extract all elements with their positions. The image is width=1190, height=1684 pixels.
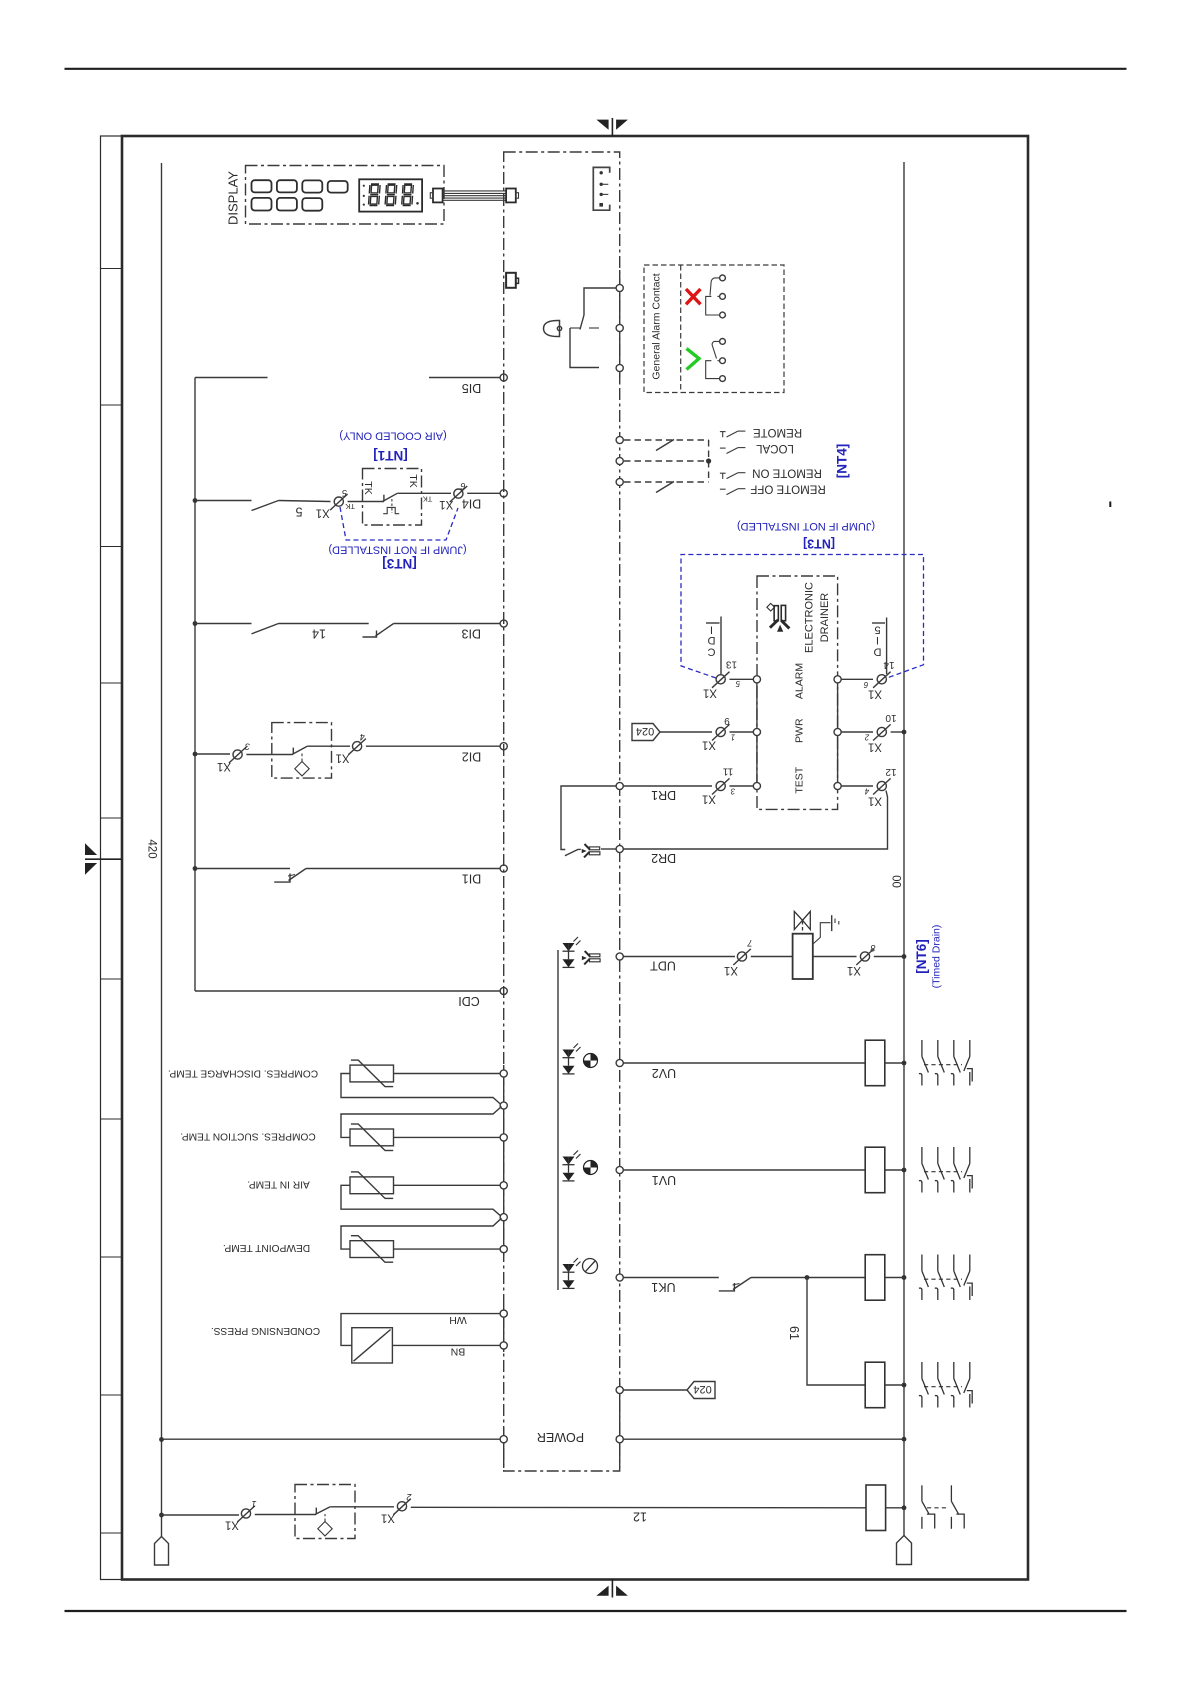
svg-text:AIR IN TEMP.: AIR IN TEMP.: [247, 1179, 309, 1190]
box TK thermal switch [NT1]: [363, 469, 422, 526]
net tag 024 bottom: [687, 1382, 715, 1399]
door contact: [315, 1508, 317, 1515]
node sensor4: [500, 1246, 507, 1253]
page header rule: [65, 68, 1127, 70]
coil UV1: [865, 1147, 885, 1193]
svg-text:1: 1: [731, 732, 735, 741]
svg-text:024: 024: [693, 1383, 711, 1395]
drain icon UDT: [582, 951, 600, 964]
svg-text:WH: WH: [449, 1314, 467, 1326]
svg-text:12: 12: [633, 1509, 647, 1523]
svg-text:3: 3: [730, 786, 735, 795]
svg-text:(JUMP IF NOT INSTALLED): (JUMP IF NOT INSTALLED): [328, 544, 466, 556]
svg-text:ALARM: ALARM: [793, 663, 805, 699]
wire DI1 to node: [306, 868, 500, 870]
wire DI4 left stub: [195, 500, 252, 502]
manual override linkage: [814, 923, 831, 944]
wire DI common rail: [194, 378, 196, 992]
node DR2: [616, 845, 623, 852]
svg-text:I: I: [876, 634, 879, 646]
connector X1 pin 9: [712, 724, 730, 740]
node POWER right: [616, 1436, 623, 1443]
wire coil UV2 to bus: [885, 1062, 904, 1064]
wire sensor2 wrap: [341, 1107, 502, 1138]
svg-text:13: 13: [726, 659, 738, 670]
node drainer pwr left: [753, 728, 760, 735]
connector X1 pin 11: [712, 778, 730, 794]
TK thermal element: [383, 507, 399, 513]
wire DI2 to X1-4: [307, 745, 350, 747]
wire drainer pwr right: [841, 731, 873, 733]
coil UV2: [865, 1040, 885, 1086]
icon green check: [687, 349, 700, 370]
svg-text:X1: X1: [868, 687, 882, 699]
wire drainer alarm right: [841, 678, 873, 680]
svg-text:DI3: DI3: [462, 626, 482, 640]
jumper NT3 dashed blue at DI4: [340, 507, 458, 540]
buzzer bell: [544, 320, 560, 336]
wire trident to DR2 node: [601, 848, 616, 850]
wire into box: [255, 1514, 316, 1516]
box door switch: [295, 1485, 355, 1539]
coil UK1: [865, 1255, 885, 1301]
relay changeover contact (ok): [706, 339, 726, 382]
drain assembly DR1-DR2: [561, 786, 616, 850]
svg-text:C: C: [707, 646, 715, 658]
svg-text:DR1: DR1: [651, 788, 676, 802]
solid overlay right edge buzzer section: [619, 270, 621, 382]
svg-text:4: 4: [360, 732, 365, 742]
svg-text:LOCAL: LOCAL: [756, 442, 794, 454]
box DISPLAY (dash-dot): [246, 166, 445, 225]
latching contact DI1: [274, 874, 290, 883]
wire DI2 to node: [366, 745, 500, 747]
solenoid valve coil: [793, 934, 813, 979]
wire sensor4 right: [394, 1248, 501, 1250]
svg-text:X1: X1: [217, 760, 231, 772]
box General Alarm Contact: [644, 265, 784, 393]
wire X1-9 to drainer: [730, 731, 754, 733]
float diamond bottom: [318, 1521, 332, 1535]
node UK1: [616, 1274, 623, 1281]
wire X1-12 to DR2: [623, 791, 887, 850]
pressure contact on DI3 row: [363, 631, 377, 638]
junction POWER bus: [902, 1437, 907, 1442]
float diamond DI2: [295, 761, 309, 775]
svg-text:UV2: UV2: [652, 1066, 676, 1080]
selector arm 1: [656, 440, 674, 451]
svg-text:00: 00: [890, 875, 902, 888]
fold mark left edge: [85, 843, 122, 875]
svg-text:[NT4]: [NT4]: [835, 444, 850, 479]
svg-text:420: 420: [146, 839, 158, 858]
connector 4pin top right: [593, 167, 609, 210]
node sel1: [616, 436, 623, 443]
contact group main 2 pole: [922, 1485, 964, 1529]
svg-text:3: 3: [245, 742, 250, 752]
svg-text:UDT: UDT: [650, 959, 676, 973]
drawing frame: [122, 136, 1028, 1580]
wire sensor1 wrap: [341, 1074, 502, 1106]
svg-text:5: 5: [295, 505, 302, 519]
node drainer test right: [834, 782, 841, 789]
wire DI3 middle: [279, 623, 369, 625]
node buzzer mid: [616, 324, 623, 331]
contact group UV2: [919, 1040, 972, 1086]
svg-text:[NT1]: [NT1]: [373, 448, 408, 463]
junction UK1 bus: [902, 1275, 907, 1280]
junction UK1 branch: [805, 1275, 810, 1280]
wire coil aux to bus: [885, 1384, 904, 1386]
fold mark top center: [596, 118, 628, 136]
switch contact on DI4 row: [252, 501, 279, 511]
svg-text:5: 5: [874, 624, 880, 636]
svg-text:COMPRES. DISCHARGE TEMP.: COMPRES. DISCHARGE TEMP.: [168, 1068, 318, 1079]
node POWER left: [500, 1436, 507, 1443]
svg-text:D: D: [873, 646, 881, 658]
wire UV2 row: [623, 1062, 865, 1064]
wire sensor3 right: [394, 1184, 501, 1186]
buzzer switch arm: [580, 315, 584, 330]
svg-text:DR2: DR2: [651, 851, 676, 865]
wire X1-13 to drainer: [730, 678, 754, 680]
seven-segment display module: [359, 179, 422, 211]
junction 024 rail bottom: [159, 1437, 164, 1442]
LED indicator rail: [557, 950, 559, 1290]
wire X1-10 to bus: [891, 731, 904, 733]
connector X1 pin 13: [712, 672, 730, 688]
svg-text:[NT3]: [NT3]: [382, 556, 417, 571]
wire buzzer top: [584, 288, 616, 315]
net tag 024 PWR: [632, 724, 660, 741]
svg-text:DRAINER: DRAINER: [819, 593, 831, 643]
svg-text:(JUMP IF NOT INSTALLED): (JUMP IF NOT INSTALLED): [737, 520, 875, 532]
wire to X1-2: [330, 1506, 394, 1508]
node drainer pwr right: [834, 728, 841, 735]
svg-text:X1: X1: [847, 964, 861, 976]
ribbon cable connector left: [433, 189, 443, 203]
svg-text:UV1: UV1: [652, 1173, 676, 1187]
wire DI3 left stub: [195, 623, 252, 625]
svg-text:TK: TK: [345, 502, 355, 511]
node sensor pair 2: [500, 1214, 507, 1221]
contact group UV1: [919, 1147, 972, 1193]
wire DI2 left stub: [195, 753, 230, 755]
svg-text:X1: X1: [439, 498, 453, 510]
wire X1-11 to drainer: [730, 785, 754, 787]
position symbol REMOTE: [720, 431, 746, 437]
svg-text:2: 2: [406, 1492, 412, 1502]
terminal left: [161, 1515, 163, 1537]
node UV1: [616, 1166, 623, 1173]
svg-text:14: 14: [883, 659, 895, 670]
wire UV1 row: [623, 1169, 865, 1171]
svg-text:CONDENSING PRESS.: CONDENSING PRESS.: [211, 1325, 320, 1336]
ribbon cable connector right: [506, 189, 516, 203]
svg-text:DISPLAY: DISPLAY: [226, 171, 241, 225]
connector X1 pin 5: [330, 494, 348, 510]
svg-text:REMOTE ON: REMOTE ON: [752, 467, 822, 479]
solid overlay drainer edges: [756, 679, 758, 786]
svg-text:(Timed Drain): (Timed Drain): [931, 925, 943, 989]
wire sensor2 right: [394, 1136, 501, 1138]
signal CDI stub: [720, 617, 722, 675]
node DR1: [616, 782, 623, 789]
wire DR1: [623, 785, 712, 787]
svg-text:12: 12: [885, 766, 897, 777]
relay changeover contact (alarm): [706, 275, 726, 318]
svg-text:DEWPOINT TEMP.: DEWPOINT TEMP.: [223, 1242, 310, 1253]
svg-text:X1: X1: [225, 1519, 239, 1531]
svg-text:61: 61: [787, 1326, 801, 1340]
svg-text:10: 10: [885, 712, 897, 723]
connector X1 pin 3: [229, 747, 247, 763]
terminal right: [897, 1536, 912, 1565]
node WH: [500, 1310, 507, 1317]
node DI1: [500, 865, 507, 872]
connector X1 pin 6: [450, 486, 468, 502]
button 6: [277, 198, 297, 211]
connector X1 pin 12: [873, 778, 891, 794]
wire 12 row: [411, 1506, 866, 1509]
wire DI4 to X1-5: [279, 501, 331, 502]
svg-text:024: 024: [636, 725, 654, 737]
fold mark bottom center: [596, 1579, 628, 1598]
wire X1-6 to DI4 node: [467, 492, 500, 494]
contact group UK1: [919, 1255, 972, 1301]
lamp circle UK1: [583, 1259, 598, 1274]
wire coil UK1 to bus: [885, 1277, 904, 1279]
svg-text:2: 2: [864, 732, 870, 741]
svg-text:I: I: [710, 624, 713, 636]
svg-text:(AIR COOLED ONLY): (AIR COOLED ONLY): [339, 430, 446, 442]
button 2: [277, 180, 297, 192]
button 3: [302, 180, 322, 192]
level switch contact DI2: [292, 748, 294, 755]
svg-text:X1: X1: [381, 1512, 395, 1524]
junction aux bus: [902, 1383, 907, 1388]
svg-text:6: 6: [460, 481, 465, 491]
svg-text:COMPRES. SUCTION TEMP.: COMPRES. SUCTION TEMP.: [180, 1131, 315, 1142]
svg-text:[NT6]: [NT6]: [914, 939, 929, 974]
connector X1 pin 8: [856, 949, 874, 965]
node drainer alarm right: [834, 676, 841, 683]
svg-text:DI5: DI5: [462, 381, 482, 395]
svg-text:POWER: POWER: [537, 1430, 584, 1444]
node drainer test left: [753, 782, 760, 789]
contact group aux: [919, 1362, 972, 1408]
svg-text:X1: X1: [703, 686, 717, 698]
wire buzzer bracket: [570, 328, 599, 368]
svg-text:DI1: DI1: [462, 872, 482, 886]
svg-text:General Alarm Contact: General Alarm Contact: [651, 273, 663, 379]
button 4: [328, 181, 348, 193]
junction main bus: [902, 1505, 907, 1510]
svg-text:8: 8: [870, 943, 875, 953]
node buzzer top: [616, 284, 623, 291]
svg-text:ELECTRONIC: ELECTRONIC: [804, 582, 816, 653]
node DI4: [500, 490, 507, 497]
svg-text:TK: TK: [423, 495, 433, 504]
wire TK to X1-6: [397, 492, 451, 494]
svg-text:DI4: DI4: [462, 496, 482, 510]
junction pwr bus: [902, 730, 907, 735]
solid overlay right edge bottom section: [619, 1383, 621, 1468]
connector small on controller edge: [506, 273, 516, 288]
wire POWER row right: [623, 1438, 904, 1440]
junction DI1 on rail: [193, 866, 198, 871]
node UV2: [616, 1059, 623, 1066]
position symbol LOCAL: [720, 448, 746, 454]
wire into DI2 box: [246, 754, 292, 756]
wire BN: [392, 1344, 500, 1346]
wire drainer test right: [841, 785, 873, 787]
LED UDT: [563, 937, 581, 967]
coil aux K: [865, 1362, 885, 1408]
node CDI: [500, 987, 507, 994]
switch contact on DI3 row: [252, 624, 279, 634]
wire solenoid to X1-8: [813, 956, 857, 958]
svg-text:5: 5: [735, 679, 740, 688]
wire right bus 00: [903, 162, 905, 1536]
node sel3: [616, 478, 623, 485]
connector X1 pin 1: [237, 1506, 255, 1522]
wire coil UV1 to bus: [885, 1169, 904, 1171]
latching contact UK1: [719, 1283, 735, 1291]
position symbol REMOTE ON: [720, 473, 746, 479]
junction UV2 bus: [902, 1061, 907, 1066]
svg-text:1: 1: [251, 1499, 256, 1509]
node DI2: [500, 743, 507, 750]
wire WH: [341, 1314, 500, 1346]
wire sensor4 wrap: [341, 1218, 502, 1249]
node DI5: [500, 374, 507, 381]
svg-text:11: 11: [722, 766, 733, 777]
svg-text:DI2: DI2: [462, 749, 482, 763]
frame title strip: [101, 136, 123, 1580]
wire 024 left rail: [161, 163, 163, 1515]
wire X1-8 to bus: [874, 956, 904, 958]
coil main: [866, 1485, 886, 1531]
svg-text:PWR: PWR: [793, 718, 805, 743]
wire DI3 to node: [394, 623, 500, 625]
wire UK1 row left: [623, 1277, 719, 1279]
junction UV1 bus: [902, 1168, 907, 1173]
wire 024 tag to X1-9: [660, 731, 712, 733]
electronic drainer box: [757, 576, 838, 809]
wire sensor1 right: [394, 1073, 501, 1075]
junction supply rail: [159, 1513, 164, 1518]
button 1: [252, 180, 272, 192]
wire coil main to bus: [886, 1507, 904, 1509]
junction selector: [706, 458, 711, 463]
junction DI2 on rail: [193, 752, 198, 757]
node sel2: [616, 457, 623, 464]
svg-text:TEST: TEST: [793, 766, 805, 793]
node BN: [500, 1342, 507, 1349]
buzzer fixed stub: [589, 327, 599, 329]
wire CDI row: [195, 990, 500, 992]
jumper NT3 dashed blue around drainer: [681, 555, 924, 679]
solid overlay left edge sensor section: [503, 1065, 505, 1256]
node sensor pair 1: [500, 1102, 507, 1109]
connector X1 pin 2: [393, 1499, 411, 1515]
svg-text:4: 4: [864, 786, 869, 795]
node sensor2: [500, 1134, 507, 1141]
svg-text:X1: X1: [702, 792, 716, 804]
wire UK1 row right: [751, 1277, 865, 1279]
wire supply left: [162, 1514, 240, 1516]
svg-text:D: D: [707, 634, 715, 646]
junction DI4 on rail: [193, 498, 198, 503]
wire DI1 left: [195, 868, 290, 870]
connector X1 pin 4: [348, 739, 366, 755]
valve bowtie: [794, 911, 810, 933]
TK contact: [383, 495, 385, 502]
node buzzer bottom: [616, 364, 623, 371]
svg-text:UK1: UK1: [651, 1280, 675, 1294]
icon red cross: [686, 289, 701, 304]
connector X1 pin 10: [873, 724, 891, 740]
signal DI5 stub: [886, 618, 888, 675]
junction UDT bus: [902, 954, 907, 959]
wire X1-7 to solenoid: [751, 956, 793, 958]
wire into TK box: [348, 501, 384, 503]
wire UK1 branch down: [807, 1278, 865, 1386]
position symbol REMOTE OFF: [720, 489, 746, 495]
svg-text:X1: X1: [702, 738, 716, 750]
svg-text:BN: BN: [451, 1345, 466, 1357]
node 024 out: [616, 1386, 623, 1393]
ribbon cable: [443, 191, 507, 200]
node drainer alarm left: [753, 676, 760, 683]
wire UDT row: [623, 956, 735, 958]
wire sensor3 wrap: [341, 1185, 502, 1216]
svg-text:TK: TK: [407, 474, 419, 487]
svg-text:REMOTE OFF: REMOTE OFF: [750, 483, 825, 495]
page footer rule: [65, 1610, 1127, 1612]
svg-text:9: 9: [724, 715, 730, 726]
stray mark right margin: [1109, 502, 1111, 508]
controller unit box (dash-dot): [504, 152, 620, 1471]
connector X1 pin 7: [733, 949, 751, 965]
connector X1 pin 14: [873, 672, 891, 688]
dashed selector wires: [624, 440, 709, 482]
node sensor1: [500, 1070, 507, 1077]
svg-text:X1: X1: [316, 506, 330, 518]
node sensor3: [500, 1182, 507, 1189]
wire DI5 row right segment: [429, 377, 500, 379]
junction DI3 on rail: [193, 621, 198, 626]
svg-text:14: 14: [312, 627, 326, 641]
wire 024 node to tag: [623, 1389, 687, 1391]
wire POWER row left: [162, 1438, 501, 1440]
svg-text:6: 6: [863, 680, 868, 689]
svg-text:CDI: CDI: [458, 994, 480, 1008]
button 7: [302, 198, 322, 211]
wire DI5 row left segment: [195, 377, 268, 379]
box level switch DI2: [272, 723, 332, 779]
selector arm 2: [656, 482, 674, 493]
7seg digit 1: [368, 184, 380, 206]
node UDT: [616, 953, 623, 960]
svg-text:REMOTE: REMOTE: [753, 426, 803, 438]
svg-text:X1: X1: [336, 752, 350, 764]
svg-text:TK: TK: [362, 481, 374, 494]
svg-text:X1: X1: [724, 964, 738, 976]
svg-text:[NT3]: [NT3]: [803, 537, 835, 551]
button 5: [252, 198, 272, 211]
